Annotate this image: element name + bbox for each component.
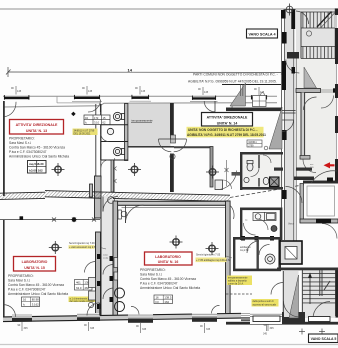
main top wall xyxy=(3,96,277,107)
proprietario block 1 xyxy=(9,137,69,159)
svg-text:Contrà San Marco 45 - 36100 Vi: Contrà San Marco 45 - 36100 Vicenza xyxy=(8,283,64,287)
svg-text:2799: 2799 xyxy=(248,144,254,147)
window tick labels above top wall xyxy=(16,86,259,95)
svg-text:PROPRIETARIO:: PROPRIETARIO: xyxy=(140,268,166,272)
svg-text:14: 14 xyxy=(128,68,133,73)
bathroom left wall xyxy=(100,104,102,160)
svg-text:UNITA' N. 13: UNITA' N. 13 xyxy=(26,129,47,133)
tiny circle marker right xyxy=(261,93,265,97)
door arc A16 xyxy=(271,283,283,295)
shower square with X xyxy=(270,177,280,187)
small table F xyxy=(154,295,173,304)
svg-text:h3.0: h3.0 xyxy=(76,286,82,290)
svg-text:h3.: h3. xyxy=(156,300,160,304)
gray store room xyxy=(128,104,171,147)
svg-text:VANO SCALA 4: VANO SCALA 4 xyxy=(248,32,276,36)
vano scala 4 label box xyxy=(247,29,278,38)
wc room arcs xyxy=(244,223,256,235)
stair treads upper flight xyxy=(301,12,337,28)
column marker M4 xyxy=(49,241,62,254)
bottom door arc 2 xyxy=(87,303,100,316)
dashed service line xyxy=(226,293,252,295)
svg-text:P.iva e C.F. 03473080247: P.iva e C.F. 03473080247 xyxy=(8,288,46,292)
marker on central wall xyxy=(170,154,175,159)
stair diagonal cut xyxy=(317,12,332,28)
door arc bottom corridor xyxy=(284,301,300,317)
svg-text:AGIBILITA' N.P.G. 0996959 N.U: AGIBILITA' N.P.G. 0996959 N.UT 447/2005 … xyxy=(188,80,277,84)
wall below triangle T1 xyxy=(226,108,281,112)
svg-text:345: 345 xyxy=(24,327,29,330)
bottom right plus ticks xyxy=(299,329,325,335)
wall step right xyxy=(232,172,241,176)
door arc right room top xyxy=(321,96,334,109)
ramp triangle T2 xyxy=(269,107,282,149)
svg-text:+ vani accessori mq 2.60: + vani accessori mq 2.60 xyxy=(69,246,97,249)
column marker M3 xyxy=(206,166,219,179)
small table G xyxy=(247,140,262,147)
left outer wall upper xyxy=(3,101,5,196)
toilet suite 2 xyxy=(263,177,269,184)
partition room 14 vertical wall xyxy=(210,147,213,188)
svg-text:h.: h. xyxy=(85,120,87,124)
counter fixtures xyxy=(253,212,276,221)
wall above stairs xyxy=(277,268,338,271)
column marker M7 xyxy=(284,4,296,16)
svg-text:Amministratore Unico: Dal Sant: Amministratore Unico: Dal Santo Michela xyxy=(140,286,200,290)
svg-text:UNITA' NON OGGETTO DI RICHIEST: UNITA' NON OGGETTO DI RICHIESTA DI P.C. … xyxy=(188,128,257,132)
svg-text:AGIBILITA' N.P.G. 34/6911 N.UT: AGIBILITA' N.P.G. 34/6911 N.UT 2799 DEL … xyxy=(187,133,266,137)
fixture near suite xyxy=(215,180,223,190)
vertical dim chain suite xyxy=(225,160,229,186)
svg-text:80.98: 80.98 xyxy=(32,298,39,302)
sink mid xyxy=(107,128,113,134)
lab16 left wall xyxy=(113,201,118,317)
stair up arrow xyxy=(309,276,311,304)
hatched boundary strip right segment xyxy=(45,191,230,202)
wc toilet bottom right xyxy=(265,254,275,264)
yellow note block right 1 xyxy=(227,276,252,286)
small table top (yellow row) xyxy=(84,115,110,125)
door arc under W2 xyxy=(88,100,101,113)
lab16 corner fixtures xyxy=(121,211,127,217)
corridor gray fill right xyxy=(285,10,294,240)
svg-text:Amministratore Unico: Dal Sant: Amministratore Unico: Dal Santo Michela xyxy=(8,292,68,296)
yellow highlighted note unit 14 xyxy=(187,127,267,138)
svg-text:acc.: acc. xyxy=(310,164,314,166)
svg-text:3.162: 3.162 xyxy=(32,303,39,307)
bottom window B1 xyxy=(12,314,32,322)
arc above wall T1 xyxy=(232,94,246,108)
svg-text:scala: scala xyxy=(103,257,109,259)
svg-text:P.iva e C.F. 03473080247: P.iva e C.F. 03473080247 xyxy=(9,150,47,154)
svg-text:UNITA' N. 15: UNITA' N. 15 xyxy=(24,266,45,270)
svg-text:UNITA' N. 14: UNITA' N. 14 xyxy=(217,121,238,125)
right outer wall top xyxy=(335,9,338,59)
corridor right wall thin xyxy=(293,10,295,243)
svg-text:DEL 18.05.2011: DEL 18.05.2011 xyxy=(74,132,92,135)
wall A pier xyxy=(95,176,102,218)
lab16 wc circles xyxy=(115,288,125,298)
lab16 right wall xyxy=(226,201,231,317)
svg-text:Servizi igienici m 7.05: Servizi igienici m 7.05 xyxy=(196,254,221,257)
vano scala 5 label box xyxy=(309,334,338,343)
window bar top W3 xyxy=(130,95,152,101)
svg-text:345: 345 xyxy=(270,327,275,330)
svg-text:Sara Mavi S.r.l.: Sara Mavi S.r.l. xyxy=(9,141,31,145)
lab15 right wall xyxy=(96,232,101,317)
lab16 top wall xyxy=(117,201,230,206)
yellow note block right 2 xyxy=(252,299,279,307)
svg-text:vano: vano xyxy=(103,255,109,257)
stall divider 2 xyxy=(101,141,128,143)
stair landing arc xyxy=(313,302,330,319)
svg-text:162: 162 xyxy=(38,168,43,172)
bottom right window sill left xyxy=(241,318,263,321)
lab16 inner face line xyxy=(122,206,227,208)
corridor door arc A6 xyxy=(282,120,294,132)
lab15 fixture rects xyxy=(89,278,96,288)
stair entry black bar xyxy=(291,9,295,29)
stair divider xyxy=(319,268,321,296)
door arc top-left room 13 xyxy=(4,102,16,117)
wc room jambs xyxy=(241,236,245,241)
red unit box 13 xyxy=(10,120,64,135)
thin partition above wall xyxy=(240,85,242,97)
corridor door arc A8 xyxy=(286,60,300,74)
bathroom suite mid-right xyxy=(240,152,283,190)
svg-text:345: 345 xyxy=(206,328,211,331)
elevator xyxy=(280,241,302,264)
lab16 top door arc left xyxy=(126,205,144,223)
door pier gray xyxy=(171,135,176,143)
lab16 radiators left wall xyxy=(114,258,118,268)
wall piece below xyxy=(300,156,310,160)
bathroom block bottom right xyxy=(233,237,281,271)
small table A xyxy=(28,161,47,174)
bottom dim ticks xyxy=(22,322,268,333)
svg-text:ATTIVITA' DIREZIONALE: ATTIVITA' DIREZIONALE xyxy=(207,116,248,120)
stair door arc top xyxy=(296,11,309,24)
partition room 14 horizontal wall xyxy=(174,146,212,148)
right outer wall mid xyxy=(335,56,338,182)
corridor door arcs lower xyxy=(103,265,113,275)
svg-text:PROPRIETARIO:: PROPRIETARIO: xyxy=(9,137,35,141)
svg-text:mq.54: mq.54 xyxy=(29,162,38,166)
svg-text:Servizi igienici mq 7.09: Servizi igienici mq 7.09 xyxy=(69,242,95,245)
svg-text:16: 16 xyxy=(156,295,160,299)
stairs bottom right xyxy=(301,268,338,318)
svg-text:172: 172 xyxy=(94,116,99,120)
svg-text:PARTI COMUNI NON OGGETTO DI RI: PARTI COMUNI NON OGGETTO DI RICHIESTA DI… xyxy=(193,73,278,77)
wall piece y176 xyxy=(294,177,314,181)
proprietario block 2 xyxy=(8,274,68,296)
T pier niche xyxy=(90,184,93,197)
svg-text:Sara Mavi S.r.l.: Sara Mavi S.r.l. xyxy=(140,273,162,277)
door arc top wall W4 xyxy=(204,101,215,112)
toilet suite 1 xyxy=(247,161,253,172)
dashed boundary continuation xyxy=(230,185,305,198)
bottom window B2 xyxy=(77,313,100,321)
guide line under note xyxy=(222,84,281,86)
bathroom divider wall vertical xyxy=(125,104,128,161)
svg-text:Amministratore Unico: Dal Sant: Amministratore Unico: Dal Santo Michela xyxy=(9,155,69,159)
page edge line top xyxy=(0,8,338,10)
suite door arcs xyxy=(251,168,260,177)
svg-text:16: 16 xyxy=(23,298,27,302)
bottom window B5 xyxy=(241,312,263,321)
ramp triangle bottom corridor xyxy=(289,275,299,318)
corridor threshold xyxy=(282,110,296,112)
svg-text:8.30: 8.30 xyxy=(38,162,44,166)
svg-text:mq 2.62: mq 2.62 xyxy=(240,249,249,252)
right rooms wall h1 xyxy=(296,89,321,93)
right rooms left wall xyxy=(301,93,305,156)
corridor door arc top xyxy=(103,197,118,212)
small table E xyxy=(22,297,40,307)
right room door arc A17 xyxy=(304,97,317,110)
central double door arcs xyxy=(159,139,172,152)
bottom door arc left xyxy=(4,305,16,317)
upper wall of lower-right block xyxy=(274,168,283,171)
suite sink xyxy=(244,177,249,182)
proprietario block 3 xyxy=(140,268,200,290)
partition door arc xyxy=(217,171,237,190)
stair flight two lower xyxy=(301,47,337,59)
tiny circle marker xyxy=(264,146,268,150)
stall door arcs xyxy=(101,117,109,125)
stair block top right background xyxy=(296,10,338,59)
svg-text:Contrà San Marco 45 - 36100 Vi: Contrà San Marco 45 - 36100 Vicenza xyxy=(140,277,196,281)
black door diamond xyxy=(71,112,76,117)
svg-text:LABORATORIO: LABORATORIO xyxy=(155,255,181,259)
toilet 2 xyxy=(113,147,124,155)
svg-text:come da D.I.A.: come da D.I.A. xyxy=(228,283,244,286)
column marker M1 xyxy=(52,163,65,176)
svg-text:LABORATORIO: LABORATORIO xyxy=(22,260,48,264)
svg-text:h3.00: h3.00 xyxy=(29,168,37,172)
stall bottom wall xyxy=(101,159,128,161)
left outer wall lower xyxy=(3,220,5,318)
right rooms light wash xyxy=(296,56,338,180)
corridor below elevator xyxy=(284,271,299,317)
window bar top W5 xyxy=(251,95,267,99)
shaft walls room13 right xyxy=(95,104,97,178)
window bar top W1 xyxy=(4,95,29,100)
svg-text:345: 345 xyxy=(263,333,268,336)
bottom window B4 xyxy=(192,313,217,322)
lab16 top door arc right xyxy=(230,205,234,219)
small table C xyxy=(253,96,267,107)
bottom window B3 xyxy=(128,314,153,323)
right lower room bottom wall xyxy=(300,219,338,223)
svg-text:+ 7.05 antibagno mq 2.60+2.62: + 7.05 antibagno mq 2.60+2.62 xyxy=(196,259,231,262)
svg-text:145: 145 xyxy=(141,90,146,93)
svg-text:34/6911: 34/6911 xyxy=(248,141,257,144)
svg-text:145: 145 xyxy=(204,91,209,94)
svg-text:UNITA' N. 16: UNITA' N. 16 xyxy=(158,260,179,264)
column marker M5 xyxy=(170,236,183,249)
vertical dim chain xyxy=(113,158,117,192)
svg-text:accesso al vano scala: accesso al vano scala xyxy=(253,303,277,306)
svg-text:3.10: 3.10 xyxy=(94,120,100,124)
dimension line 14 xyxy=(6,67,286,77)
svg-text:345: 345 xyxy=(142,328,147,331)
central wall B upper xyxy=(170,103,174,139)
red unit box 16 xyxy=(145,252,193,265)
bathroom door arcs xyxy=(247,241,259,253)
right lower room side wall xyxy=(300,184,303,223)
svg-text:PROPRIETARIO:: PROPRIETARIO: xyxy=(8,274,34,278)
svg-text:145: 145 xyxy=(17,90,22,93)
window bar top W4 xyxy=(190,96,218,102)
landing circle marker xyxy=(306,31,311,36)
toilet 1 xyxy=(113,112,124,120)
arc A19 xyxy=(311,171,337,184)
corridor left wall jamb chunks xyxy=(281,10,286,19)
svg-text:145: 145 xyxy=(88,90,93,93)
lab15 top fence line xyxy=(0,216,100,221)
column marker M2 xyxy=(128,163,141,176)
black unit box 14 xyxy=(202,113,253,127)
store room bottom wall xyxy=(128,146,175,148)
yellow note lab15 xyxy=(69,297,96,303)
arc A18 xyxy=(286,187,303,204)
bottom wall xyxy=(3,312,290,322)
wc kitchen room mid xyxy=(240,208,282,241)
window bar top W2 xyxy=(72,95,102,101)
bottom dark band right xyxy=(226,322,338,325)
svg-text:ATTIVITA' DIREZIONALE: ATTIVITA' DIREZIONALE xyxy=(16,123,58,127)
corridor left wall thin xyxy=(280,10,282,240)
corridor jamb chunks xyxy=(110,256,114,261)
red unit box 15 xyxy=(14,257,56,272)
red arrow xyxy=(324,162,335,168)
central wall B lower xyxy=(170,154,174,193)
svg-text:138.5: 138.5 xyxy=(164,295,171,299)
svg-text:461: 461 xyxy=(76,281,81,285)
ramp triangle T1 xyxy=(230,83,246,106)
stall divider 1 xyxy=(101,124,128,126)
lab16 window arcs xyxy=(131,306,139,314)
svg-text:Contrà San Marco 45 - 36100 Vi: Contrà San Marco 45 - 36100 Vicenza xyxy=(9,146,65,150)
bottom window strip right xyxy=(250,312,282,336)
corridor between labs xyxy=(101,196,113,317)
lab15 fixtures door arc xyxy=(85,262,96,273)
svg-text:Vano: Vano xyxy=(288,223,294,226)
suite interior wash xyxy=(240,152,283,190)
ramp triangle T3 xyxy=(304,67,317,88)
hatched boundary strip left segment xyxy=(0,192,45,199)
svg-text:temporaneamente: temporaneamente xyxy=(132,119,154,123)
right room lower walls xyxy=(303,181,338,184)
svg-text:Sara Mavi S.r.l.: Sara Mavi S.r.l. xyxy=(8,279,30,283)
wc dark circle xyxy=(271,226,277,232)
svg-text:P.iva e C.F. 03473080247: P.iva e C.F. 03473080247 xyxy=(140,282,178,286)
dark block landing xyxy=(287,52,299,59)
small table D xyxy=(75,280,93,291)
page edge line bottom xyxy=(0,344,338,346)
column marker M6 xyxy=(206,242,219,255)
yellow note 2 lines left xyxy=(73,129,98,136)
svg-text:VANO SCALA 5: VANO SCALA 5 xyxy=(311,337,337,341)
svg-text:162: 162 xyxy=(164,300,169,304)
small wall below bathrooms xyxy=(111,160,114,192)
svg-text:h.: h. xyxy=(23,303,26,307)
marker circle corridor door xyxy=(108,197,115,204)
stair window sill xyxy=(309,317,331,322)
svg-text:345: 345 xyxy=(90,327,95,330)
